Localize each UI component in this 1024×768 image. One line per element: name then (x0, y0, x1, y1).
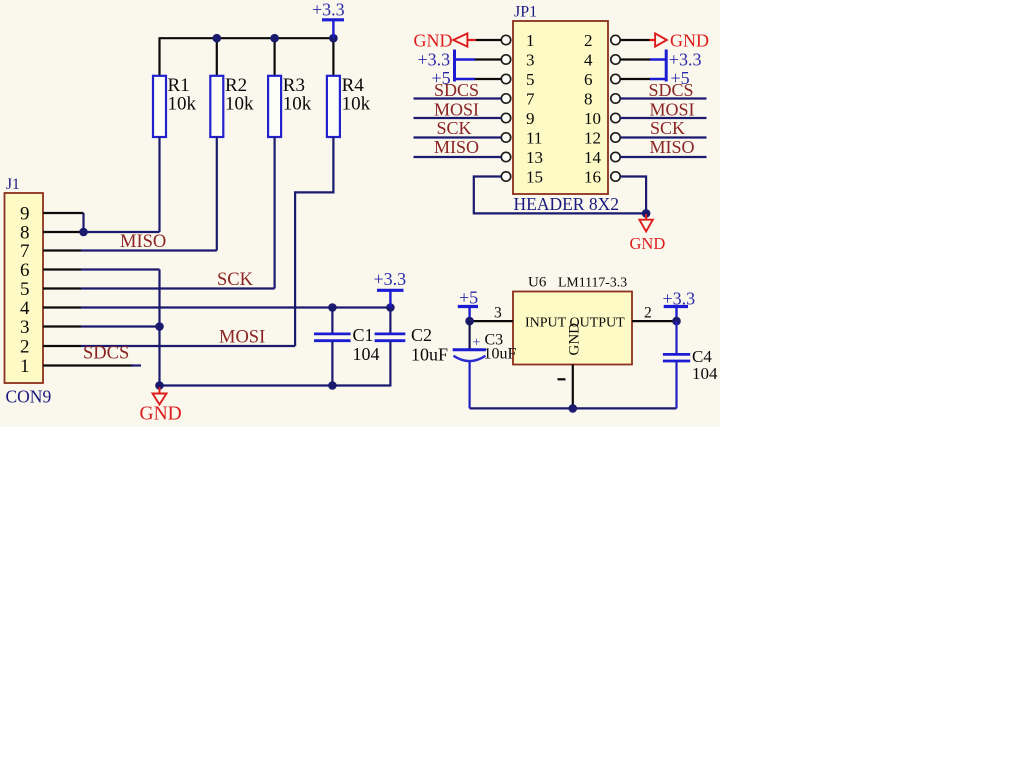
svg-text:2: 2 (20, 337, 30, 358)
wire JP1 pin2 stub (620, 39, 650, 41)
junction rail-R4 (329, 34, 338, 43)
svg-text:+3.3: +3.3 (418, 50, 451, 70)
svg-text:16: 16 (584, 168, 601, 187)
resistor R4 (327, 75, 371, 137)
wire GND vertical (158, 270, 160, 386)
wire SCK net (pin5 to R3) (81, 287, 275, 289)
svg-text:10: 10 (584, 109, 601, 128)
wire MOSI right (620, 117, 706, 119)
svg-text:5: 5 (20, 279, 30, 300)
svg-text:10uF: 10uF (484, 346, 517, 363)
svg-text:7: 7 (20, 241, 30, 262)
svg-text:12: 12 (584, 129, 601, 148)
svg-text:2: 2 (644, 304, 652, 321)
svg-text:15: 15 (526, 168, 543, 187)
svg-text:MISO: MISO (650, 137, 695, 157)
svg-text:GND: GND (567, 323, 583, 356)
wire U6 pin3 (470, 320, 513, 322)
capacitor C2 (375, 308, 448, 387)
wire R1 bottom to pin8 net (158, 137, 160, 232)
wire JP1 pin5 stub (475, 78, 502, 80)
wire JP1 pin3 stub (475, 58, 502, 60)
power bar left (453, 50, 456, 82)
junction C1 top (328, 303, 337, 312)
svg-text:13: 13 (526, 148, 543, 167)
regulator U6 (513, 275, 632, 365)
ground symbol J1 (140, 387, 182, 425)
svg-text:MOSI: MOSI (434, 99, 479, 119)
junction pin3 (155, 322, 164, 331)
wire pin8 net to R1 (81, 231, 160, 233)
power arrow GND left (453, 33, 467, 46)
junction C2 top (386, 303, 395, 312)
junction JP1 gnd (642, 209, 651, 218)
svg-text:GND: GND (140, 404, 182, 425)
wire GND bottom rail (160, 384, 391, 386)
svg-text:6: 6 (20, 260, 30, 281)
wire: R4 top (332, 38, 334, 76)
svg-text:MISO: MISO (434, 137, 479, 157)
power bar right (665, 50, 668, 82)
pin circles left (501, 35, 510, 181)
svg-text:SCK: SCK (650, 118, 685, 138)
junction GND (155, 381, 164, 390)
power +5 over C3 (458, 288, 478, 322)
svg-text:J1: J1 (6, 176, 20, 193)
wire: R2 top (216, 38, 218, 76)
resistor R3 (268, 75, 312, 137)
wire JP1 pin6 stub (620, 78, 650, 80)
capacitor C3 electrolytic (453, 321, 517, 408)
svg-text:+3.3: +3.3 (669, 50, 702, 70)
svg-text:2: 2 (584, 31, 593, 50)
pin stub J1-4 (43, 306, 81, 308)
wire: +3.3 top rail (160, 37, 334, 39)
junction rail-R2 (213, 34, 222, 43)
wire +3.3 right blue (650, 58, 666, 60)
svg-text:4: 4 (20, 298, 30, 319)
svg-text:10k: 10k (168, 94, 197, 115)
power arrow GND right (655, 33, 667, 46)
svg-text:SDCS: SDCS (649, 80, 694, 100)
wire SDCS left (414, 97, 502, 99)
svg-text:HEADER 8X2: HEADER 8X2 (514, 194, 619, 214)
svg-text:INPUT: INPUT (525, 316, 567, 331)
wire SCK right (620, 136, 706, 138)
svg-text:1: 1 (526, 31, 535, 50)
wire +5 left blue (455, 78, 476, 80)
pin stub J1-2 (43, 345, 81, 347)
wire SCK left (414, 136, 502, 138)
svg-text:8: 8 (584, 90, 593, 109)
wire +3.3 left blue (455, 58, 476, 60)
pin stub J1-3 (43, 325, 81, 327)
svg-text:1: 1 (20, 356, 30, 377)
pin circles right (611, 35, 620, 181)
svg-text:SCK: SCK (217, 270, 254, 290)
wire pin3 to GND vertical (81, 325, 160, 327)
junction C1 bottom (328, 381, 337, 390)
wire R4 bottom to MOSI (jog) (295, 137, 333, 346)
svg-text:GND: GND (414, 31, 453, 51)
svg-text:CON9: CON9 (6, 387, 52, 407)
wire GND right red (650, 39, 656, 41)
wire bottom rail U6 (470, 407, 677, 409)
svg-text:MOSI: MOSI (219, 328, 265, 348)
svg-text:+5: +5 (459, 288, 478, 308)
svg-text:10k: 10k (283, 94, 312, 115)
pin 1 dash (558, 378, 566, 380)
svg-text:U6: U6 (528, 275, 547, 291)
svg-text:9: 9 (20, 204, 30, 225)
pin stub J1-9 (43, 212, 84, 214)
wire pin6 to GND vertical (81, 268, 160, 270)
wire U6 pin2 (632, 320, 677, 322)
power +3.3 over C2 (374, 269, 407, 308)
wire JP1 pin1 stub (476, 39, 502, 41)
svg-text:5: 5 (526, 70, 535, 89)
svg-text:11: 11 (526, 129, 542, 148)
wire GND left red (467, 39, 477, 41)
svg-text:10k: 10k (342, 94, 371, 115)
junction rail-R3 (270, 34, 279, 43)
svg-text:6: 6 (584, 70, 593, 89)
pin stub J1-6 (43, 268, 81, 270)
svg-text:JP1: JP1 (514, 4, 537, 21)
header JP1 (513, 4, 619, 214)
junction pin2 C4 (672, 317, 681, 326)
wire JP1 pin4 stub (620, 58, 650, 60)
svg-text:3: 3 (494, 304, 502, 321)
svg-text:3: 3 (20, 317, 30, 338)
resistor R1 (153, 75, 197, 137)
svg-text:7: 7 (526, 90, 535, 109)
svg-text:104: 104 (353, 344, 380, 364)
svg-text:+3.3: +3.3 (374, 269, 407, 289)
svg-text:C1: C1 (353, 325, 374, 345)
wire SDCS net (pin1) (131, 364, 141, 366)
schematic sheet background (0, 0, 720, 427)
wire SDCS right (620, 97, 706, 99)
power +3.3 over C4 (663, 288, 696, 321)
capacitor C1 (314, 308, 380, 386)
svg-text:14: 14 (584, 148, 602, 167)
svg-text:104: 104 (692, 364, 718, 383)
junction pin8/pin9 (79, 228, 88, 237)
svg-text:C2: C2 (411, 325, 432, 345)
junction U6 gnd (569, 404, 578, 413)
wire pin16 to bottom (620, 177, 646, 214)
svg-text:4: 4 (584, 51, 593, 70)
svg-text:9: 9 (526, 109, 535, 128)
connector J1 (5, 176, 52, 407)
wire MOSI net (pin2 to R4) (81, 345, 295, 347)
wire +5 right blue (650, 78, 666, 80)
svg-text:GND: GND (630, 234, 666, 253)
svg-text:SDCS: SDCS (434, 80, 479, 100)
wire U6 gnd pin (572, 365, 574, 409)
pin stub J1-5 (43, 287, 81, 289)
wire: R1 top (158, 37, 160, 76)
svg-text:10k: 10k (225, 94, 254, 115)
pin stub J1-8 (43, 231, 81, 233)
svg-text:SCK: SCK (437, 118, 472, 138)
wire MISO left (414, 156, 502, 158)
wire MISO net (pin7 to R2) (81, 249, 217, 251)
wire pin4 to C1 C2 rail (81, 306, 390, 308)
svg-text:GND: GND (670, 31, 709, 51)
svg-text:3: 3 (526, 51, 535, 70)
wire: R3 top (274, 38, 276, 76)
wire pin15 to bottom (474, 177, 646, 214)
svg-text:MOSI: MOSI (650, 99, 695, 119)
junction +5 pin3 (465, 317, 474, 326)
svg-text:MISO: MISO (120, 232, 166, 252)
wire MOSI left (414, 117, 502, 119)
svg-text:+3.3: +3.3 (312, 0, 345, 20)
svg-text:SDCS: SDCS (83, 344, 129, 364)
svg-text:LM1117-3.3: LM1117-3.3 (558, 275, 627, 290)
power +3.3 top (312, 0, 345, 38)
ground symbol JP1 (630, 214, 666, 253)
svg-text:10uF: 10uF (411, 344, 448, 364)
capacitor C4 (663, 321, 718, 408)
pin stub J1-7 (43, 249, 81, 251)
wire R2 bottom to MISO (216, 137, 218, 251)
wire R3 bottom to SCK (274, 137, 276, 289)
wire pin9 down to pin8 (82, 213, 84, 232)
pin stub J1-1 (43, 364, 133, 366)
resistor R2 (210, 75, 254, 137)
svg-text:+: + (473, 336, 481, 351)
wire MISO right (620, 156, 706, 158)
